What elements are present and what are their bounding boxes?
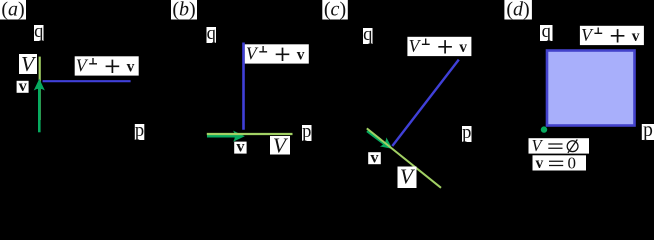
- vector v (b) green arrow right: [207, 131, 245, 142]
- svg-text:0: 0: [568, 154, 577, 173]
- label V-perp + v (a): [75, 55, 139, 75]
- label V-perp + v (c): [407, 36, 471, 56]
- node q (b): [207, 24, 217, 44]
- svg-text:v: v: [536, 155, 544, 172]
- point v=0 (d) green dot: [541, 126, 547, 132]
- label v = 0 (d): [533, 154, 587, 173]
- svg-text:q: q: [363, 25, 372, 45]
- node p (c): [462, 123, 472, 143]
- line V-perp + v (b) blue vertical: [242, 43, 245, 130]
- label V (a): [19, 52, 37, 76]
- region V-perp + v (d) blue square: [547, 51, 635, 126]
- node q (a): [34, 22, 44, 42]
- node q (d): [540, 22, 553, 42]
- svg-text:v: v: [370, 147, 379, 166]
- svg-text:p: p: [643, 120, 653, 141]
- label V (c): [398, 165, 417, 189]
- svg-text:p: p: [135, 121, 144, 141]
- svg-text:q: q: [34, 22, 43, 42]
- label v (a): [17, 76, 29, 95]
- label V-perp + v (b): [245, 43, 309, 63]
- node p (d): [642, 120, 654, 141]
- segment V (a) light green: [39, 57, 41, 120]
- label V = empty-set (d): [529, 136, 590, 155]
- svg-text:p: p: [462, 123, 471, 143]
- node p (a): [135, 121, 145, 141]
- svg-text:(d): (d): [506, 0, 529, 20]
- svg-text:q: q: [542, 22, 551, 42]
- svg-text:p: p: [302, 122, 311, 142]
- svg-text:(b): (b): [172, 0, 195, 20]
- segment V (c) light green on top: [367, 128, 441, 187]
- label (a): [0, 0, 26, 20]
- label V-perp + v (d): [580, 25, 644, 45]
- line V-perp + v (c) blue diagonal: [392, 60, 459, 146]
- vector v (c) green arrow down-right: [367, 131, 396, 154]
- label v (c): [368, 147, 381, 166]
- svg-text:(c): (c): [324, 0, 346, 20]
- node q (c): [363, 25, 373, 45]
- vector v (a) green arrow up: [34, 79, 45, 133]
- label (b): [171, 0, 197, 20]
- line V-perp + v (a) blue horizontal: [43, 80, 131, 82]
- label v (b): [234, 137, 246, 156]
- label (d): [504, 0, 532, 20]
- svg-text:v: v: [19, 76, 28, 95]
- segment V (b) light green on top: [207, 133, 293, 135]
- svg-text:(a): (a): [1, 0, 24, 20]
- node p (b): [302, 122, 312, 142]
- label V (b): [270, 133, 290, 157]
- svg-text:v: v: [236, 137, 245, 156]
- label (c): [322, 0, 348, 20]
- svg-text:q: q: [207, 24, 216, 44]
